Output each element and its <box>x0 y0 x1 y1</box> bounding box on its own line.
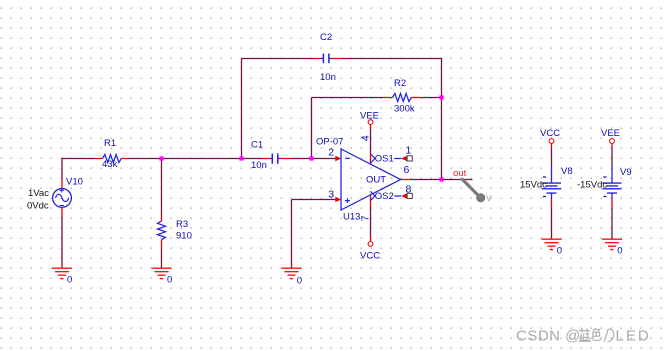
svg-text:OS1: OS1 <box>375 154 394 165</box>
svg-text:VEE: VEE <box>360 111 379 122</box>
svg-text:VEE: VEE <box>601 128 620 139</box>
svg-text:0: 0 <box>297 276 302 287</box>
svg-text:-15Vdc: -15Vdc <box>577 180 607 191</box>
svg-text:R3: R3 <box>176 219 188 230</box>
svg-text:R2: R2 <box>394 78 406 89</box>
svg-text:C1: C1 <box>251 140 263 151</box>
svg-text:OUT: OUT <box>366 175 386 186</box>
svg-text:R1: R1 <box>104 138 116 149</box>
svg-text:1: 1 <box>406 145 412 157</box>
svg-text:0: 0 <box>557 246 562 257</box>
svg-text:0: 0 <box>67 275 72 286</box>
svg-text:0: 0 <box>167 275 172 286</box>
svg-text:VCC: VCC <box>540 128 560 139</box>
svg-text:6: 6 <box>404 164 410 176</box>
svg-text:V8: V8 <box>561 166 573 177</box>
svg-text:1Vac: 1Vac <box>28 188 49 199</box>
svg-text:7: 7 <box>359 215 371 221</box>
svg-text:V: V <box>486 193 492 203</box>
svg-text:0: 0 <box>617 246 622 257</box>
svg-text:LED: LED <box>616 328 651 345</box>
svg-text:10n: 10n <box>320 72 336 83</box>
svg-text:CSDN @: CSDN @ <box>516 328 581 345</box>
svg-text:300k: 300k <box>394 104 415 115</box>
svg-text:U13: U13 <box>343 212 360 223</box>
svg-text:V10: V10 <box>66 177 83 188</box>
svg-text:4: 4 <box>359 135 371 141</box>
svg-text:OS2: OS2 <box>375 191 394 202</box>
svg-text:out: out <box>453 168 467 179</box>
svg-text:8: 8 <box>406 184 412 196</box>
svg-text:10n: 10n <box>251 160 267 171</box>
svg-text:VCC: VCC <box>360 251 380 262</box>
svg-text:910: 910 <box>176 231 192 242</box>
svg-text:43k: 43k <box>102 159 118 170</box>
svg-text:2: 2 <box>328 147 334 159</box>
svg-text:3: 3 <box>328 189 334 201</box>
svg-text:V9: V9 <box>620 167 632 178</box>
svg-text:C2: C2 <box>320 32 332 43</box>
svg-text:15Vdc: 15Vdc <box>520 180 547 191</box>
svg-text:0Vdc: 0Vdc <box>27 201 49 212</box>
